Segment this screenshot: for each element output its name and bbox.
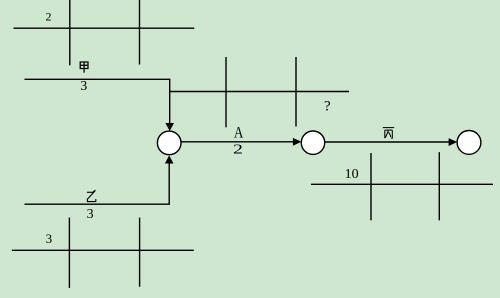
node 3 circle bbox=[457, 131, 481, 155]
tally bottom-right: tick 1 bbox=[370, 153, 372, 220]
tally figure top-left: tick 1 bbox=[69, 0, 71, 65]
svg-text:2: 2 bbox=[233, 141, 243, 156]
glyph jia (甲) bbox=[80, 62, 88, 73]
arrow bing: node2 to node3 bbox=[325, 141, 450, 143]
svg-text:A: A bbox=[234, 124, 244, 141]
glyph bing (丙) bbox=[383, 128, 394, 139]
tally figure top-left: horizontal line bbox=[14, 27, 195, 29]
wire: jia activity line with corner down to node 1 bbox=[25, 79, 170, 125]
tally figure bottom-left: horizontal line bbox=[12, 249, 194, 251]
tally figure middle (?): horizontal line bbox=[170, 91, 349, 93]
tally bottom-right: tick 2 bbox=[438, 152, 440, 220]
wire: yi activity line with corner up to node 1 bbox=[25, 163, 170, 204]
arrowhead up into node 1 bbox=[165, 155, 174, 163]
tally middle: tick 2 bbox=[295, 57, 297, 127]
glyph yi (乙) bbox=[87, 190, 96, 202]
arrow A: node1 to node2 bbox=[181, 141, 294, 143]
svg-text:?: ? bbox=[324, 98, 331, 114]
tally figure bottom-right: horizontal line bbox=[311, 183, 493, 185]
svg-text:3: 3 bbox=[80, 79, 87, 94]
tally figure top-left: tick 2 bbox=[139, 0, 141, 65]
svg-text:10: 10 bbox=[345, 167, 359, 182]
svg-text:2: 2 bbox=[46, 9, 52, 23]
svg-text:3: 3 bbox=[87, 207, 94, 222]
arrowhead down into node 1 bbox=[165, 123, 174, 131]
tally middle: tick 1 bbox=[225, 57, 227, 127]
node 2 circle bbox=[301, 131, 324, 154]
node 1 circle bbox=[157, 131, 181, 155]
svg-text:3: 3 bbox=[46, 231, 53, 246]
tally bottom-left: tick 2 bbox=[139, 218, 141, 287]
tally bottom-left: tick 1 bbox=[68, 218, 70, 288]
